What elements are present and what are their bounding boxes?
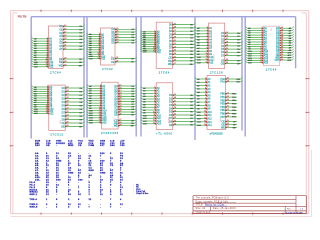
svg-text:OE: OE bbox=[111, 61, 115, 64]
U1 left pin wires bbox=[32, 37, 54, 68]
svg-text:WE: WE bbox=[168, 63, 172, 66]
svg-text:VPP: VPP bbox=[274, 59, 279, 62]
svg-text:Size: A4: Size: A4 bbox=[196, 207, 207, 210]
svg-text:27C128: 27C128 bbox=[210, 70, 223, 74]
bus B4 vertical bbox=[194, 17, 196, 140]
svg-text:PA1: PA1 bbox=[221, 81, 226, 84]
bus B2b vertical bbox=[86, 17, 88, 138]
svg-text:WE: WE bbox=[59, 64, 63, 67]
svg-text:WE2: WE2 bbox=[68, 145, 74, 147]
svg-text:A 2:45 11:06 AM: A 2:45 11:06 AM bbox=[286, 212, 303, 215]
IC U1 body (27C64) bbox=[49, 26, 64, 69]
U3 left pin wires bbox=[141, 30, 162, 54]
svg-text:OE: OE bbox=[61, 125, 65, 128]
svg-text:-: - bbox=[100, 206, 101, 208]
svg-text:WE: WE bbox=[114, 125, 118, 128]
svg-text:A11.: A11. bbox=[35, 179, 41, 182]
svg-text:-: - bbox=[120, 206, 121, 208]
svg-text:D44: D44 bbox=[110, 144, 115, 147]
U5 left pin wires bbox=[246, 27, 269, 65]
svg-text:A11: A11 bbox=[101, 58, 106, 61]
IC U9 body (uPD43256) bbox=[207, 76, 225, 130]
svg-text:A12: A12 bbox=[209, 62, 214, 65]
U9 left pin wires bbox=[195, 77, 213, 127]
U5 right pin wires bbox=[274, 27, 293, 62]
svg-text:AT28C256: AT28C256 bbox=[101, 131, 119, 135]
svg-text:A11: A11 bbox=[157, 51, 162, 54]
svg-text:GND.8: GND.8 bbox=[30, 206, 38, 208]
svg-text:+TL-0500: +TL-0500 bbox=[156, 132, 173, 136]
svg-text:PA0: PA0 bbox=[35, 144, 40, 147]
svg-text:A12: A12 bbox=[49, 66, 54, 69]
svg-text:A12: A12 bbox=[49, 112, 54, 115]
IC U3 body (27C64) bbox=[156, 22, 172, 68]
svg-text:OE: OE bbox=[114, 114, 118, 117]
svg-text:Date: 25-Jan-2013: Date: 25-Jan-2013 bbox=[213, 207, 236, 210]
svg-text:Chip42 & Bus: Chip42 & Bus bbox=[136, 193, 148, 195]
U6 left pin wires bbox=[32, 85, 55, 115]
svg-text:27C64: 27C64 bbox=[50, 71, 61, 75]
IC U2 body (27C32) bbox=[101, 28, 116, 65]
svg-text:27C32: 27C32 bbox=[102, 67, 113, 71]
bus B6 vertical bbox=[295, 17, 297, 69]
svg-text:-: - bbox=[46, 206, 47, 208]
svg-text:©Carl G.E.A.: ©Carl G.E.A. bbox=[196, 211, 212, 214]
svg-text:A13: A13 bbox=[157, 123, 162, 126]
svg-text:A15: A15 bbox=[102, 122, 107, 125]
svg-text:TXD.4: TXD.4 bbox=[30, 198, 38, 201]
U6 right pin wires bbox=[61, 86, 84, 128]
svg-text:PGM: PGM bbox=[89, 145, 95, 147]
svg-text:SOUND: SOUND bbox=[56, 143, 65, 145]
svg-text:27C64: 27C64 bbox=[266, 68, 277, 72]
svg-text:A14: A14 bbox=[208, 124, 213, 127]
U8 right pin wires bbox=[169, 94, 195, 127]
svg-text:27C64: 27C64 bbox=[159, 70, 170, 74]
U7 right pin wires bbox=[114, 84, 137, 127]
U3 right pin wires bbox=[168, 23, 195, 66]
IC U7 body (AT28C256) bbox=[102, 82, 118, 129]
svg-text:OE: OE bbox=[221, 62, 225, 65]
U2 left pin wires bbox=[87, 33, 106, 61]
U8 left pin wires bbox=[141, 86, 162, 125]
svg-text:LS157: LS157 bbox=[214, 53, 216, 61]
svg-text:Rev:: Rev: bbox=[287, 208, 292, 210]
svg-text:-: - bbox=[56, 194, 57, 196]
U1 right pin wires bbox=[59, 25, 85, 68]
svg-text:OE: OE bbox=[46, 145, 50, 147]
bus top horizontal bbox=[31, 16, 295, 18]
svg-text:The console_PCBoard v2.0: The console_PCBoard v2.0 bbox=[196, 197, 230, 200]
bus B5a vertical bbox=[241, 17, 243, 131]
U4 left pin wires bbox=[195, 26, 214, 64]
svg-text:CE: CE bbox=[78, 145, 82, 147]
bus B2a vertical bbox=[83, 17, 85, 138]
svg-text:27C512: 27C512 bbox=[50, 132, 63, 136]
svg-text:C33: C33 bbox=[120, 145, 125, 147]
bus B3a vertical bbox=[135, 17, 137, 137]
U4 right pin wires bbox=[221, 32, 243, 66]
bus B1 vertical bbox=[30, 17, 32, 139]
U2 right pin wires bbox=[111, 28, 137, 64]
IC U6 body (27C512) bbox=[49, 85, 65, 130]
svg-text:TITLE:: TITLE: bbox=[196, 205, 204, 207]
notes list bbox=[133, 185, 148, 195]
svg-text:PB7: PB7 bbox=[220, 116, 225, 119]
svg-text:-: - bbox=[56, 145, 57, 147]
title block bbox=[193, 196, 306, 215]
svg-text:WE: WE bbox=[221, 126, 225, 129]
IC U5 body (27C64) bbox=[263, 26, 279, 66]
IC U4 body (27C128) bbox=[209, 23, 225, 68]
bus B5b vertical bbox=[244, 17, 246, 137]
svg-text:SND.1: SND.1 bbox=[30, 194, 38, 196]
U7 left pin wires bbox=[87, 84, 108, 124]
svg-text:A15: A15 bbox=[264, 62, 269, 65]
svg-text:-: - bbox=[100, 199, 101, 201]
U9 right pin wires bbox=[220, 77, 242, 129]
bus B3b vertical bbox=[140, 17, 142, 137]
IC U8 body (+TL-0500) bbox=[156, 83, 173, 130]
svg-text:A77: A77 bbox=[100, 144, 105, 147]
svg-text:uPD43256: uPD43256 bbox=[210, 131, 224, 135]
svg-text:FB.TB: FB.TB bbox=[18, 15, 28, 19]
net name table bbox=[30, 140, 126, 209]
